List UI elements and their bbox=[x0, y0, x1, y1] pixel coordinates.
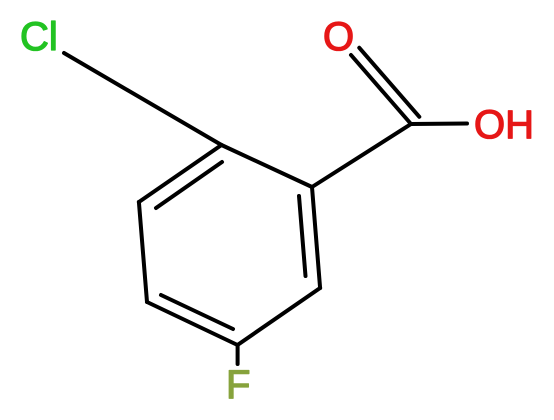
wire ring edge C1-C2 bbox=[238, 288, 321, 345]
wire aromatic inner line right bbox=[299, 196, 306, 276]
wire ring edge C6-C1 bbox=[312, 187, 320, 288]
bond C-OH bbox=[411, 122, 467, 127]
wire ring edge C3-C4 bbox=[139, 202, 147, 302]
wire ring edge C4-C5 bbox=[139, 145, 222, 202]
svg-text:O: O bbox=[323, 15, 354, 59]
bond F-C2 bbox=[236, 345, 240, 364]
wire aromatic inner line top-left bbox=[156, 162, 222, 208]
bond C6-COOH carbon bbox=[312, 124, 411, 187]
bond C=O line 1 bbox=[351, 55, 411, 124]
svg-text:OH: OH bbox=[474, 103, 534, 147]
bond Cl-C5 bbox=[64, 53, 222, 145]
wire ring edge C2-C3 bbox=[147, 302, 238, 345]
svg-text:F: F bbox=[226, 363, 250, 407]
svg-text:Cl: Cl bbox=[20, 15, 58, 59]
wire ring edge C5-C6 bbox=[222, 145, 313, 187]
wire aromatic inner line bottom-left bbox=[161, 295, 233, 329]
bond C=O line 2 bbox=[359, 48, 419, 117]
